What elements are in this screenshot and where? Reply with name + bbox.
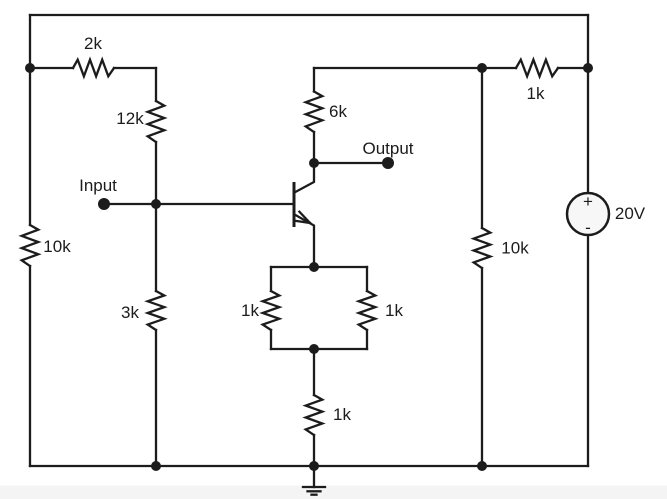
wire parallel right lower lead <box>366 330 368 349</box>
node emitter / parallel top <box>309 262 319 272</box>
svg-text:3k: 3k <box>121 303 139 322</box>
node vcc / source <box>583 63 593 73</box>
wire 1k bottom to rail <box>313 435 315 466</box>
wire 10k right branch bottom <box>481 268 483 466</box>
node collector <box>309 158 319 168</box>
resistor R10 1k bottom <box>306 395 323 435</box>
wire vcc feed <box>314 67 482 69</box>
svg-text:1k: 1k <box>527 84 545 103</box>
node bottom 12k branch <box>151 461 161 471</box>
wire 10k right branch top <box>481 68 483 228</box>
svg-text:6k: 6k <box>329 102 347 121</box>
resistor R4 10k left <box>22 225 39 266</box>
resistor R2 12k <box>148 101 165 142</box>
wire 6k branch top <box>313 68 315 92</box>
node A (left rail / 2k) <box>25 63 35 73</box>
svg-text:20V: 20V <box>615 204 646 223</box>
svg-text:-: - <box>585 218 591 237</box>
wire parallel left lower lead <box>270 330 272 349</box>
wire input node to 3k <box>155 204 157 291</box>
svg-text:Input: Input <box>79 176 117 195</box>
svg-text:12k: 12k <box>116 109 144 128</box>
resistor R7 10k right <box>474 228 491 268</box>
resistor R6 1k top right <box>482 67 516 69</box>
wire parallel top <box>271 266 367 268</box>
wire collector to output <box>314 162 388 164</box>
terminal Input <box>98 198 110 210</box>
wire 3k branch bottom <box>155 330 157 466</box>
wire left rail upper <box>29 15 31 225</box>
resistor R3 3k <box>148 291 165 330</box>
transistor Q1 <box>294 163 314 267</box>
wire parallel to 1k bottom <box>313 349 315 395</box>
wire 12k branch top <box>155 68 157 101</box>
wire bottom rail <box>30 465 588 467</box>
resistor R5 6k <box>306 92 323 133</box>
svg-text:1k: 1k <box>385 301 403 320</box>
resistor R9 1k right <box>359 291 376 330</box>
wire input to base <box>104 203 294 205</box>
svg-text:+: + <box>583 192 593 211</box>
svg-text:2k: 2k <box>84 34 102 53</box>
voltage source V1 20V <box>567 193 609 235</box>
node bottom 10k right <box>477 461 487 471</box>
svg-text:1k: 1k <box>241 301 259 320</box>
wire top rail <box>30 14 588 16</box>
terminal Output <box>382 157 394 169</box>
wire parallel right upper lead <box>366 267 368 291</box>
svg-text:10k: 10k <box>43 237 71 256</box>
wire right rail lower <box>587 235 589 466</box>
node vcc / 10k right <box>477 63 487 73</box>
svg-text:Output: Output <box>362 139 413 158</box>
resistor R1 2k <box>30 67 73 69</box>
wire parallel left upper lead <box>270 267 272 291</box>
svg-text:10k: 10k <box>501 239 529 258</box>
resistor R8 1k left <box>263 291 280 330</box>
node ground junction <box>309 461 319 471</box>
wire parallel bottom <box>271 348 367 350</box>
wire left rail lower <box>29 266 31 466</box>
wire right rail upper <box>587 15 589 193</box>
node B (input / 12k-3k) <box>151 199 161 209</box>
wire 12k to input node <box>155 142 157 204</box>
svg-text:1k: 1k <box>333 405 351 424</box>
node parallel bottom <box>309 344 319 354</box>
ground <box>303 466 325 495</box>
wire 6k to collector node <box>313 132 315 163</box>
